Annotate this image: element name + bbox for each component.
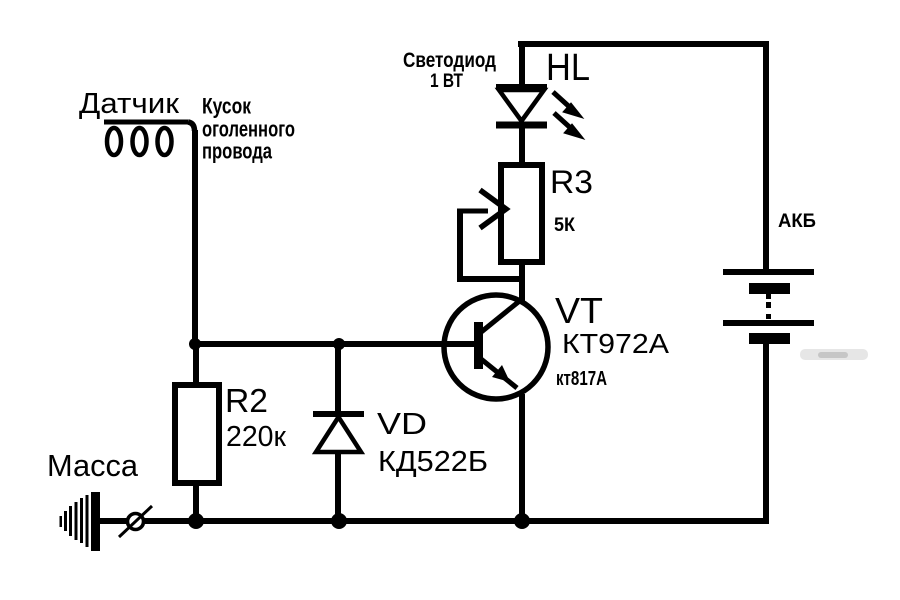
- wire right rail upper: [763, 41, 769, 271]
- LED light arrows: [553, 92, 584, 139]
- battery B1 АКБ: [723, 269, 814, 344]
- diode VD КД522Б: [313, 414, 364, 452]
- svg-text:КТ972А: КТ972А: [562, 328, 669, 359]
- wire R2 to ground: [193, 483, 199, 518]
- resistor R3 5K (variable): [501, 165, 542, 262]
- node VD-ground junction: [331, 513, 347, 529]
- svg-text:R2: R2: [225, 382, 268, 419]
- connector plug on ground wire: [119, 506, 152, 537]
- svg-text:HL: HL: [546, 47, 590, 89]
- wire R3 to VT collector: [519, 262, 525, 302]
- wire R3 wiper to bottom terminal: [457, 209, 522, 282]
- wire LED cathode to R3: [519, 125, 525, 168]
- wire base rail: [192, 341, 474, 347]
- node R2-ground junction: [188, 513, 204, 529]
- wire ground rail: [96, 518, 769, 524]
- LED HL: [496, 87, 547, 125]
- svg-text:1 ВТ: 1 ВТ: [430, 71, 463, 92]
- svg-text:R3: R3: [550, 164, 593, 200]
- svg-text:провода: провода: [202, 139, 273, 164]
- wire VT emitter to ground: [519, 394, 525, 522]
- wire VD to ground: [335, 452, 341, 518]
- svg-text:Кусок: Кусок: [202, 94, 252, 119]
- resistor R2 220к: [175, 385, 219, 483]
- svg-text:АКБ: АКБ: [778, 211, 816, 232]
- wire top rail: [518, 41, 769, 47]
- wire junction to R2: [193, 347, 199, 385]
- svg-text:кт817А: кт817А: [556, 368, 607, 390]
- wire junction to VD: [335, 347, 341, 411]
- svg-text:VT: VT: [555, 290, 603, 331]
- svg-text:VD: VD: [377, 406, 427, 441]
- svg-text:Светодиод: Светодиод: [403, 49, 496, 72]
- node base-R2 junction: [189, 338, 201, 350]
- wire sensor down: [192, 130, 198, 346]
- ground chassis Масса: [60, 492, 101, 551]
- label Кусок оголенного провода: [202, 94, 295, 164]
- wire right rail lower: [763, 341, 769, 524]
- node VT-ground junction: [514, 513, 530, 529]
- wire LED anode: [519, 44, 525, 86]
- svg-text:5К: 5К: [554, 215, 575, 236]
- svg-text:КД522Б: КД522Б: [378, 446, 488, 478]
- svg-text:Датчик: Датчик: [79, 88, 179, 120]
- transistor VT KT972A: [444, 295, 548, 399]
- jpeg artifact smudge, decorative: [800, 349, 868, 360]
- svg-text:220к: 220к: [226, 421, 286, 453]
- R3 wiper arrow: [457, 190, 506, 228]
- svg-text:Масса: Масса: [47, 448, 139, 483]
- sensor coil Датчик: [104, 122, 195, 155]
- node base-VD junction: [333, 338, 345, 350]
